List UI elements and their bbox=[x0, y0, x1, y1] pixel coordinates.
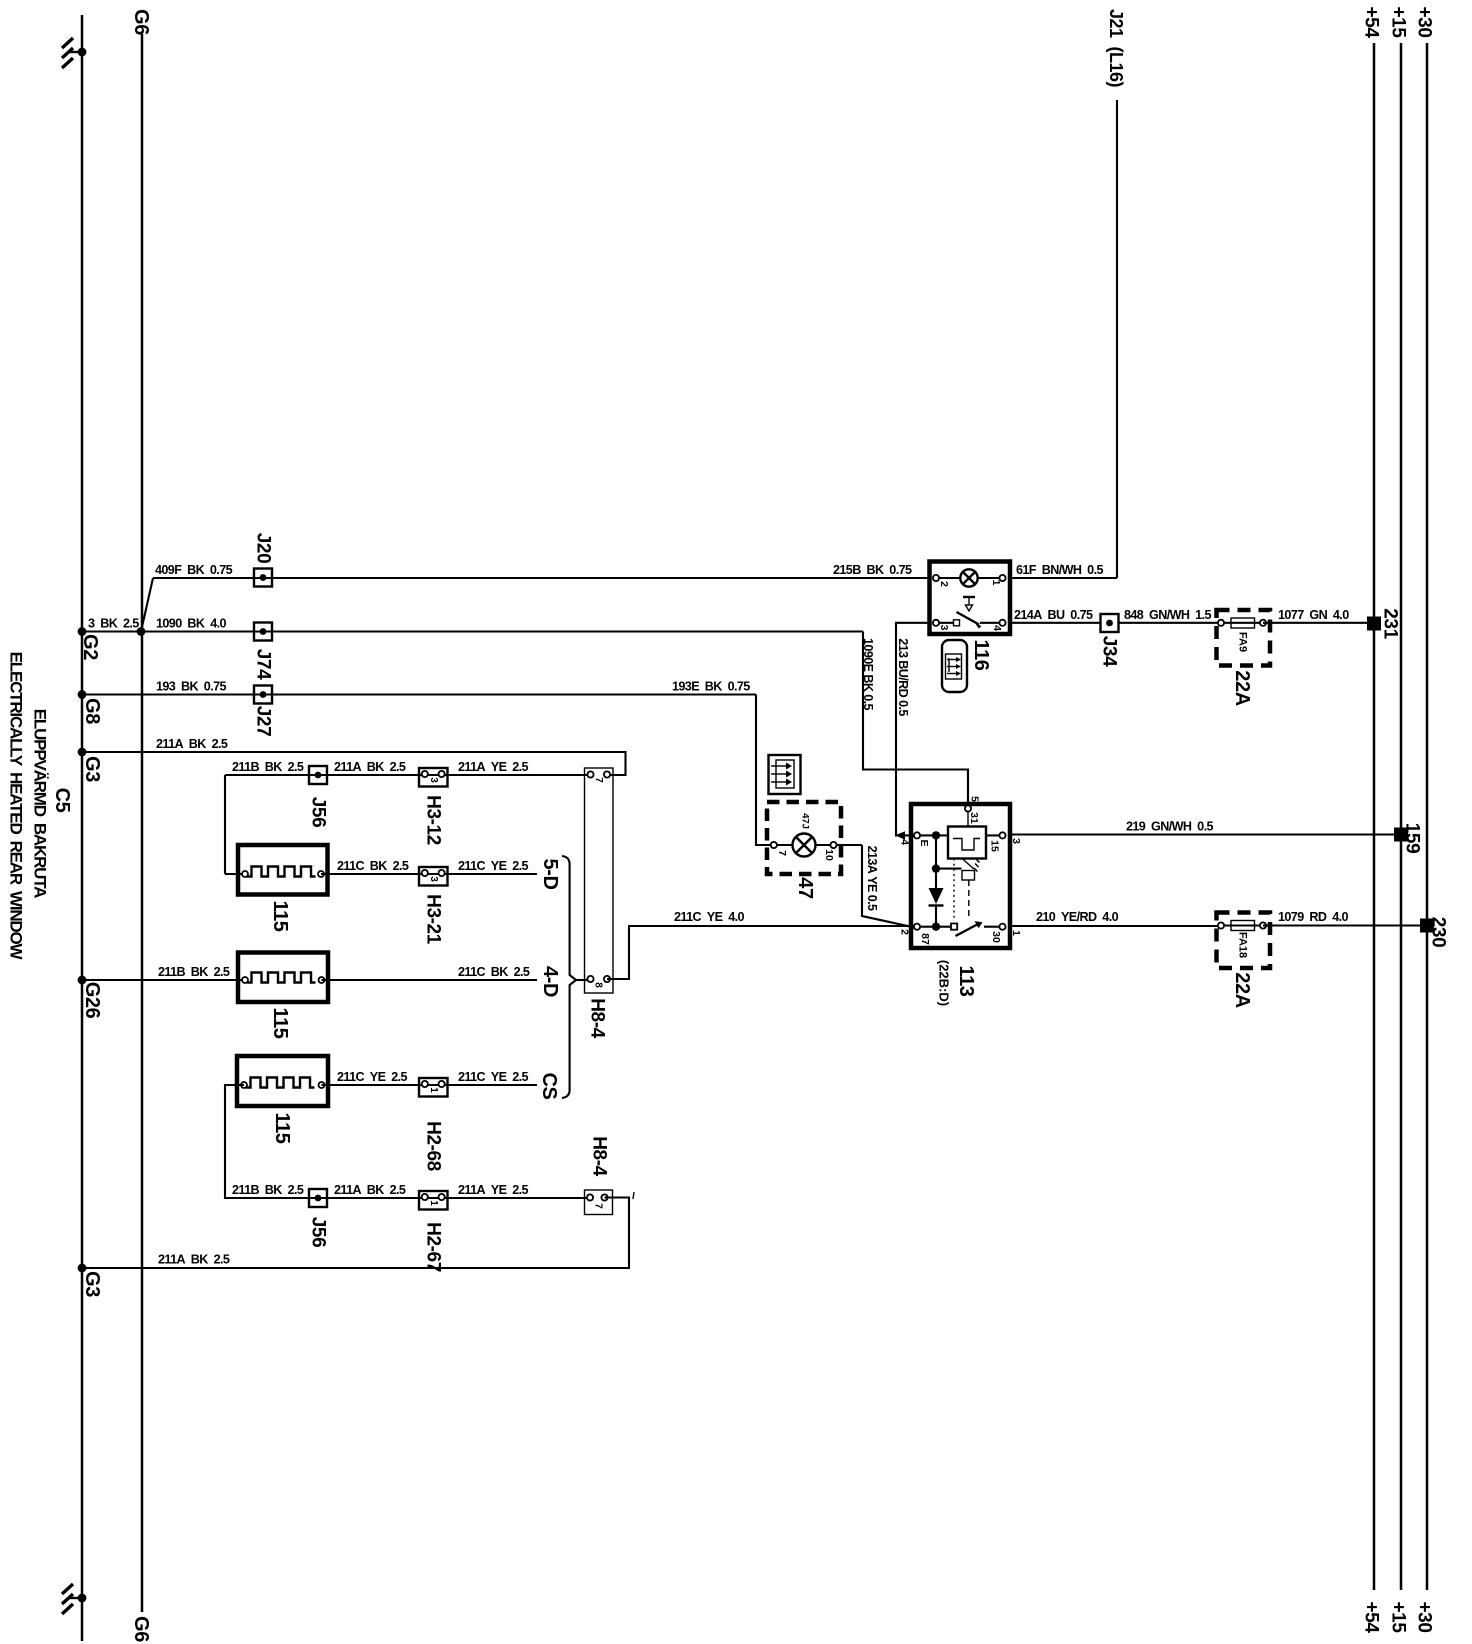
svg-text:61F BN/WH 0.5: 61F BN/WH 0.5 bbox=[1016, 563, 1103, 577]
svg-text:J56: J56 bbox=[308, 797, 329, 828]
svg-text:8: 8 bbox=[593, 982, 604, 988]
splice J34 bbox=[1099, 614, 1120, 667]
splice J27 bbox=[253, 686, 274, 737]
svg-text:3: 3 bbox=[938, 625, 950, 631]
node 159 bbox=[1394, 823, 1423, 854]
heater element 115 middle bbox=[238, 953, 328, 1039]
svg-text:H3-12: H3-12 bbox=[423, 795, 444, 845]
svg-text:J34: J34 bbox=[1099, 636, 1120, 667]
wire 193E vertical to lamp 47 pin 7 bbox=[756, 695, 771, 846]
svg-text:2: 2 bbox=[899, 929, 911, 935]
svg-text:848 GN/WH 1.5: 848 GN/WH 1.5 bbox=[1124, 608, 1211, 622]
ground symbol bottom bbox=[62, 1584, 86, 1614]
svg-text:211C BK 2.5: 211C BK 2.5 bbox=[337, 859, 409, 873]
label 5-D bbox=[539, 858, 561, 889]
label +54 bottom bbox=[1361, 1601, 1382, 1633]
ground symbol top bbox=[62, 38, 86, 68]
svg-text:211B BK 2.5: 211B BK 2.5 bbox=[232, 760, 304, 774]
svg-text:G6: G6 bbox=[130, 9, 152, 35]
svg-text:1090E BK 0.5: 1090E BK 0.5 bbox=[861, 638, 875, 711]
svg-text:3: 3 bbox=[428, 876, 439, 882]
svg-text:+15: +15 bbox=[1388, 1601, 1409, 1633]
svg-text:J21 (L16): J21 (L16) bbox=[1106, 9, 1126, 88]
wire 213A YE 0.5 lamp to relay pin 2 bbox=[862, 845, 911, 927]
svg-text:211A YE 2.5: 211A YE 2.5 bbox=[458, 1183, 529, 1197]
svg-text:4: 4 bbox=[899, 839, 911, 845]
splice J20 bbox=[253, 533, 274, 587]
svg-text:193E BK 0.75: 193E BK 0.75 bbox=[672, 680, 750, 694]
wire 213 BU/RD 0.5 switch pin 3 to relay pin E bbox=[895, 623, 930, 840]
svg-text:J20: J20 bbox=[253, 533, 274, 564]
svg-text:4: 4 bbox=[991, 625, 1003, 631]
label +30 top bbox=[1414, 6, 1435, 37]
svg-text:ELUPPVÄRMD BAKRUTA: ELUPPVÄRMD BAKRUTA bbox=[31, 709, 50, 898]
wire 1090E BK 0.5 vertical to relay pin 5 bbox=[861, 632, 968, 807]
svg-text:G26: G26 bbox=[81, 982, 103, 1019]
power rail +30 bbox=[1426, 43, 1429, 1590]
label +15 bottom bbox=[1388, 1601, 1409, 1633]
svg-text:4-D: 4-D bbox=[539, 966, 561, 997]
svg-text:30: 30 bbox=[990, 931, 1002, 943]
wire 211A BK 2.5 bottom row to G3 bbox=[78, 1198, 629, 1273]
node G8 label bbox=[81, 698, 103, 724]
svg-text:47J: 47J bbox=[800, 813, 811, 829]
wire 211B/211A row to H8-4 bbox=[225, 760, 590, 775]
wire 1077 GN 4.0 to node 231 bbox=[1263, 608, 1374, 623]
svg-text:3 BK 2.5: 3 BK 2.5 bbox=[88, 617, 139, 631]
fuse FA18 22A bbox=[1217, 913, 1271, 1008]
power rail +54 bbox=[1373, 43, 1376, 1590]
label +15 top bbox=[1388, 6, 1409, 38]
svg-text:1: 1 bbox=[990, 580, 1002, 586]
connector H2-68 bbox=[419, 1078, 448, 1171]
svg-text:G6: G6 bbox=[130, 1616, 152, 1642]
svg-text:7: 7 bbox=[593, 777, 604, 783]
node J21 (L16) bbox=[1106, 9, 1126, 578]
svg-text:H2-67: H2-67 bbox=[423, 1222, 444, 1272]
svg-text:15: 15 bbox=[989, 840, 1001, 852]
svg-text:215B BK 0.75: 215B BK 0.75 bbox=[833, 563, 912, 577]
svg-text:E: E bbox=[918, 839, 930, 846]
heater element 115 lower bbox=[237, 1056, 328, 1144]
svg-text:213 BU/RD 0.5: 213 BU/RD 0.5 bbox=[896, 638, 910, 716]
svg-text:2: 2 bbox=[938, 581, 950, 587]
svg-text:409F BK 0.75: 409F BK 0.75 bbox=[155, 563, 233, 577]
wire 409F/215B BK 0.75 row bbox=[141, 563, 930, 632]
svg-text:5-D: 5-D bbox=[539, 858, 561, 889]
svg-text:1: 1 bbox=[1010, 930, 1022, 936]
label +54 top bbox=[1361, 6, 1382, 38]
wire 848 GN/WH 1.5 to fuse FA9 bbox=[1119, 608, 1222, 623]
node G3 label bbox=[81, 756, 103, 782]
sidebar title C5 bbox=[51, 788, 73, 813]
node G3 bottom label bbox=[81, 1271, 103, 1297]
wire heater3 left to lower J56 row bbox=[225, 1085, 590, 1198]
fuse FA9 22A bbox=[1217, 610, 1271, 706]
svg-text:5: 5 bbox=[969, 796, 981, 802]
svg-text:87: 87 bbox=[919, 933, 931, 945]
svg-text:H8-4: H8-4 bbox=[589, 1136, 610, 1176]
svg-text:231: 231 bbox=[1380, 608, 1401, 639]
svg-text:210 YE/RD 4.0: 210 YE/RD 4.0 bbox=[1036, 910, 1119, 924]
wire 219 GN/WH 0.5 to node 159 bbox=[1010, 820, 1401, 835]
svg-text:115: 115 bbox=[271, 1112, 293, 1143]
wire 1079 RD 4.0 to node 230 bbox=[1263, 910, 1427, 926]
svg-text:J27: J27 bbox=[253, 706, 274, 737]
svg-text:1090 BK 4.0: 1090 BK 4.0 bbox=[156, 617, 227, 631]
wire 3 BK 2.5 / 1090 BK 4.0 row bbox=[78, 617, 863, 636]
svg-text:211A YE 2.5: 211A YE 2.5 bbox=[458, 760, 529, 774]
svg-text:213A YE 0.5: 213A YE 0.5 bbox=[865, 846, 879, 911]
svg-text:193 BK 0.75: 193 BK 0.75 bbox=[156, 680, 227, 694]
sidebar title english bbox=[7, 652, 26, 961]
svg-text:G3: G3 bbox=[81, 1271, 103, 1297]
svg-text:FA18: FA18 bbox=[1237, 932, 1249, 958]
label 4-D bbox=[539, 966, 561, 997]
svg-text:214A BU 0.75: 214A BU 0.75 bbox=[1014, 608, 1093, 622]
svg-text:230: 230 bbox=[1428, 917, 1449, 948]
wire 210 YE/RD 4.0 to fuse FA18 bbox=[1010, 910, 1221, 926]
connector H8-4 small bbox=[585, 1136, 635, 1214]
svg-text:31: 31 bbox=[968, 812, 980, 824]
svg-text:113: 113 bbox=[955, 965, 977, 996]
connector H3-21 bbox=[419, 867, 448, 945]
svg-text:10: 10 bbox=[823, 849, 835, 861]
svg-text:(22B:D): (22B:D) bbox=[937, 960, 952, 1006]
node G6 top label bbox=[130, 9, 152, 35]
node G2 label bbox=[79, 634, 101, 660]
label +30 bottom bbox=[1414, 1601, 1435, 1632]
splice J56 lower bbox=[308, 1189, 329, 1247]
switch 116 heated rear window bbox=[930, 562, 1011, 671]
svg-text:ELECTRICALLY HEATED REAR WI: ELECTRICALLY HEATED REAR WINDOW bbox=[7, 652, 26, 961]
node 231 bbox=[1367, 608, 1401, 639]
wire 211C YE 2.5 CS row bbox=[322, 1070, 538, 1085]
svg-text:7: 7 bbox=[776, 850, 788, 856]
power rail +15 bbox=[1400, 43, 1403, 1590]
svg-text:211A BK 2.5: 211A BK 2.5 bbox=[158, 1253, 230, 1267]
splice J74 bbox=[253, 623, 274, 681]
svg-text:219 GN/WH 0.5: 219 GN/WH 0.5 bbox=[1126, 820, 1213, 834]
svg-text:G8: G8 bbox=[81, 698, 103, 724]
svg-text:+54: +54 bbox=[1361, 6, 1382, 38]
connector H2-67 bbox=[419, 1191, 448, 1272]
svg-text:211B BK 2.5: 211B BK 2.5 bbox=[232, 1183, 304, 1197]
svg-text:211C YE 4.0: 211C YE 4.0 bbox=[674, 910, 745, 924]
node 230 bbox=[1420, 917, 1449, 948]
wire 211C row from heater 1 bbox=[321, 859, 537, 874]
svg-text:H2-68: H2-68 bbox=[423, 1121, 444, 1171]
label CS bbox=[538, 1073, 560, 1100]
ground rail G6 bbox=[141, 34, 144, 1612]
svg-text:7: 7 bbox=[593, 1203, 604, 1209]
svg-text:+54: +54 bbox=[1361, 1601, 1382, 1633]
svg-text:G3: G3 bbox=[81, 756, 103, 782]
svg-text:1077 GN 4.0: 1077 GN 4.0 bbox=[1278, 608, 1349, 622]
svg-text:159: 159 bbox=[1402, 823, 1423, 854]
relay 113 heated rear window bbox=[899, 770, 1023, 1007]
connector H8-4 tall bbox=[585, 768, 614, 1039]
wire 211C YE 4.0 from H8-4 pin 8 to relay bbox=[607, 910, 911, 979]
svg-text:J56: J56 bbox=[308, 1217, 329, 1248]
ground rail G left bbox=[81, 15, 84, 1641]
node G26 label bbox=[81, 982, 103, 1019]
splice J56 upper bbox=[308, 766, 329, 827]
svg-text:22A: 22A bbox=[1231, 972, 1253, 1008]
svg-text:1: 1 bbox=[428, 1200, 439, 1206]
wire 211A BK 2.5 top row from G3 bbox=[78, 737, 626, 775]
connector H3-12 bbox=[419, 768, 448, 845]
svg-text:1079 RD 4.0: 1079 RD 4.0 bbox=[1278, 910, 1349, 924]
svg-text:H8-4: H8-4 bbox=[587, 998, 608, 1038]
wire 193 BK 0.75 row bbox=[78, 680, 756, 699]
svg-text:47: 47 bbox=[794, 877, 816, 899]
wire 211C BK 2.5 4-D row bbox=[322, 965, 538, 980]
wire 211B BK 2.5 from G26 bbox=[78, 965, 244, 984]
connector icon above lamp 47 bbox=[769, 755, 801, 794]
svg-text:211A BK 2.5: 211A BK 2.5 bbox=[334, 1183, 406, 1197]
svg-text:115: 115 bbox=[269, 900, 291, 931]
svg-text:211C YE 2.5: 211C YE 2.5 bbox=[458, 1070, 529, 1084]
svg-text:FA9: FA9 bbox=[1237, 632, 1249, 652]
svg-text:211C BK 2.5: 211C BK 2.5 bbox=[458, 965, 530, 979]
svg-text:115: 115 bbox=[269, 1007, 291, 1038]
svg-text:3: 3 bbox=[428, 777, 439, 783]
svg-text:3: 3 bbox=[1010, 838, 1022, 844]
svg-text:1: 1 bbox=[428, 1087, 439, 1093]
heater element 115 upper bbox=[225, 775, 328, 932]
svg-text:211A BK 2.5: 211A BK 2.5 bbox=[334, 760, 406, 774]
svg-text:211C YE 2.5: 211C YE 2.5 bbox=[337, 1070, 408, 1084]
svg-text:211B BK 2.5: 211B BK 2.5 bbox=[158, 965, 230, 979]
svg-text:116: 116 bbox=[970, 639, 992, 670]
svg-text:+30: +30 bbox=[1414, 1601, 1435, 1632]
wire 214A BU 0.75 to J34 bbox=[1010, 608, 1101, 623]
wire 61F BN/WH 0.5 to J21 bbox=[1010, 563, 1117, 578]
svg-text:J74: J74 bbox=[253, 649, 274, 680]
sidebar title swedish bbox=[31, 709, 50, 898]
svg-text:+15: +15 bbox=[1388, 6, 1409, 38]
svg-text:211C YE 2.5: 211C YE 2.5 bbox=[458, 859, 529, 873]
svg-text:H3-21: H3-21 bbox=[423, 894, 444, 945]
svg-text:22A: 22A bbox=[1231, 670, 1253, 706]
svg-text:G2: G2 bbox=[79, 634, 101, 660]
node G6 bottom label bbox=[130, 1616, 152, 1642]
svg-text:211A BK 2.5: 211A BK 2.5 bbox=[156, 737, 228, 751]
connector icon below switch 116 bbox=[942, 640, 967, 692]
lamp 47 warning indicator bbox=[767, 802, 862, 899]
gathering bracket bus bbox=[562, 856, 590, 1098]
svg-text:CS: CS bbox=[538, 1073, 560, 1100]
svg-text:+30: +30 bbox=[1414, 6, 1435, 37]
svg-text:C5: C5 bbox=[51, 788, 73, 813]
